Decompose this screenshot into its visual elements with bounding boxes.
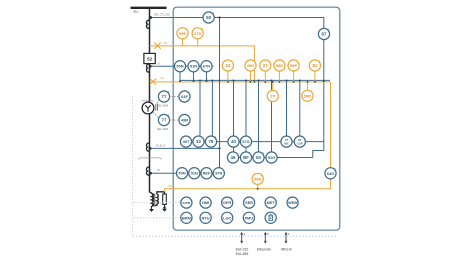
svg-text:HMI: HMI	[202, 200, 209, 205]
PT winding symbol	[146, 20, 149, 28]
svg-text:50: 50	[206, 15, 211, 20]
svg-text:59P: 59P	[290, 63, 297, 68]
function circle LGC	[222, 212, 233, 223]
wire: stubs row1-row2	[234, 147, 247, 152]
svg-text:3V: 3V	[161, 76, 164, 80]
function circle 51N	[188, 61, 199, 72]
function circle 40	[228, 136, 239, 147]
function circle 64G	[325, 168, 337, 179]
svg-text:32: 32	[196, 139, 201, 144]
wire: orange right drop to neutral line	[165, 82, 331, 189]
function circle 51G	[266, 152, 277, 163]
svg-text:EIA-485: EIA-485	[236, 252, 249, 256]
function circle 59D	[302, 90, 313, 101]
svg-text:27I: 27I	[270, 94, 275, 99]
wire: orange voltage bus	[150, 81, 331, 83]
grounding transformer	[150, 193, 153, 208]
zone separator tick	[139, 158, 162, 160]
svg-text:78: 78	[209, 139, 214, 144]
svg-text:27S: 27S	[194, 31, 201, 36]
svg-text:RTU: RTU	[202, 215, 210, 220]
dashed monitor boundary left	[132, 96, 134, 236]
svg-text:PMU: PMU	[245, 215, 254, 220]
wire: blue line from bus tap to 50 and 87 chain	[150, 18, 324, 158]
svg-text:IRIG-B: IRIG-B	[281, 248, 292, 252]
wire: row line 50N/51N/67N	[150, 65, 214, 67]
svg-text:REF: REF	[203, 171, 211, 176]
function circle 49T	[180, 136, 191, 147]
resistor grounding	[163, 194, 167, 204]
svg-text:1: 1	[168, 115, 170, 118]
wire: row2 chain	[227, 157, 312, 159]
wire: stem 64G top	[330, 82, 332, 168]
wire: orange neutral VN tap	[164, 189, 166, 193]
function circle 24	[222, 60, 233, 71]
function circle BF	[240, 152, 251, 163]
svg-text:VN: VN	[168, 184, 172, 188]
svg-text:SEL-2664: SEL-2664	[157, 104, 169, 107]
svg-text:3: 3	[288, 232, 290, 236]
wire: stems 50N 51N 67N to bus	[180, 72, 207, 81]
function circle 27S	[192, 28, 204, 39]
svg-text:52: 52	[147, 57, 152, 62]
fuse VT sync	[154, 43, 160, 49]
svg-text:IN: IN	[157, 168, 160, 172]
function circle 27I	[267, 90, 278, 101]
svg-text:67G: 67G	[242, 139, 249, 144]
svg-text:40: 40	[231, 139, 236, 144]
svg-text:77: 77	[162, 94, 167, 99]
svg-text:51N: 51N	[191, 171, 198, 176]
wire: vertical from 50-line to 87N	[219, 18, 221, 168]
svg-text:27: 27	[285, 138, 288, 142]
svg-text:87: 87	[322, 32, 327, 37]
function circle 67N	[201, 61, 212, 72]
wire: CT feed line under row1	[150, 147, 220, 149]
svg-text:51G: 51G	[268, 155, 275, 160]
node bus tap junction	[149, 16, 152, 19]
function circle 59G	[274, 60, 285, 71]
svg-text:59C: 59C	[284, 142, 289, 146]
function circle HMI	[200, 197, 211, 208]
wire: stem 59N	[257, 185, 259, 189]
svg-text:64G: 64G	[327, 171, 334, 176]
function circle 51N	[189, 168, 200, 179]
svg-text:59N: 59N	[254, 176, 261, 181]
function circle 87	[318, 28, 330, 39]
wire: row3 line	[150, 172, 225, 174]
generator G1	[142, 99, 154, 114]
dashed link to BRM	[134, 217, 181, 219]
function circle 59N	[252, 173, 264, 184]
svg-text:5: 5	[267, 232, 269, 236]
ground symbol resistor	[162, 208, 167, 212]
function circle 27	[260, 60, 271, 71]
function circle 64F	[179, 91, 190, 102]
function circle 46	[227, 152, 238, 163]
function circle 77	[158, 91, 170, 102]
svg-text:50N: 50N	[178, 171, 185, 176]
ground symbol primary	[149, 207, 154, 213]
svg-text:77: 77	[162, 118, 167, 123]
svg-text:59S, 27S, 25G: 59S, 27S, 25G	[154, 14, 170, 17]
field brush bracket	[156, 104, 158, 111]
wire: orange sync VT line	[150, 46, 255, 82]
svg-text:59S: 59S	[179, 31, 186, 36]
function circle 32	[193, 136, 204, 147]
svg-text:4: 4	[244, 232, 246, 236]
svg-text:50: 50	[256, 155, 261, 160]
dashed monitor boundary bottom	[133, 235, 336, 237]
relay box (SEL relay outline)	[173, 7, 340, 230]
svg-text:52PB: 52PB	[183, 201, 192, 205]
svg-text:87N: 87N	[215, 171, 222, 176]
function circle 49R	[179, 114, 190, 125]
function circle 50	[203, 12, 215, 23]
fuse VT terminal	[150, 78, 156, 84]
dashed link SEL-2600 to 77	[154, 113, 160, 119]
svg-text:60: 60	[298, 138, 301, 142]
function circle 50	[253, 152, 265, 163]
svg-text:LOP: LOP	[297, 142, 303, 146]
CT neutral-side	[146, 167, 149, 175]
svg-text:59D: 59D	[304, 93, 311, 98]
svg-text:50N: 50N	[176, 64, 183, 69]
wire: main feeder vertical upper	[149, 8, 151, 54]
comm port arrow	[240, 232, 245, 244]
svg-text:BRM: BRM	[182, 215, 191, 220]
CT terminal-side	[146, 143, 149, 151]
svg-text:LGC: LGC	[223, 215, 231, 220]
function circle 77	[158, 114, 170, 125]
function circle 50N	[174, 61, 185, 72]
dashed link SEL-2664 to 77	[157, 99, 160, 104]
svg-text:MET: MET	[267, 200, 276, 205]
function circle 25G	[245, 60, 256, 71]
svg-text:IA, IB, IC: IA, IB, IC	[156, 145, 166, 148]
dashed link 77 to 64F	[169, 96, 180, 98]
function circle WEB	[287, 197, 298, 208]
comm port arrow	[264, 232, 269, 244]
breaker 52	[144, 53, 155, 63]
wire: orange stems voltage row	[228, 71, 315, 82]
wire: row1 chain	[180, 141, 323, 143]
battery monitor circle	[265, 212, 276, 223]
svg-text:25G: 25G	[247, 63, 254, 68]
CT breaker-side	[146, 64, 149, 72]
function circle 52PB	[181, 197, 192, 208]
wire: vertical feeders	[200, 80, 300, 151]
wire: main feeder vertical lower	[149, 64, 151, 193]
svg-text:Ethernet¹: Ethernet¹	[257, 248, 272, 252]
function circle RTU	[200, 212, 211, 223]
svg-text:VS: VS	[164, 41, 168, 45]
svg-text:67N: 67N	[203, 64, 210, 69]
function circle DFR	[222, 197, 233, 208]
wire: stems 59S 27S	[183, 39, 198, 46]
svg-text:59G: 59G	[276, 63, 283, 68]
svg-text:SEL-2600: SEL-2600	[157, 128, 169, 131]
function circle SER	[244, 197, 255, 208]
function circle 78	[205, 136, 217, 147]
svg-text:3I: 3I	[158, 62, 160, 66]
function circle 67G	[240, 136, 251, 147]
dashed link 77 to 49R	[169, 119, 180, 121]
function circle 59P	[288, 60, 299, 71]
svg-text:WEB: WEB	[288, 200, 297, 205]
function circle PMU	[243, 212, 254, 223]
function circle 81	[309, 60, 321, 71]
svg-text:SER: SER	[245, 200, 253, 205]
bus bar	[131, 7, 167, 9]
junction dots	[179, 79, 325, 189]
svg-text:EIA-232: EIA-232	[236, 248, 249, 252]
svg-text:27: 27	[263, 63, 268, 68]
svg-text:Bus: Bus	[134, 10, 140, 14]
function circle	[294, 136, 305, 147]
wire: stems 27I 59D	[273, 82, 308, 91]
svg-text:46: 46	[231, 155, 236, 160]
function circle 50N	[176, 168, 187, 179]
svg-text:BF: BF	[243, 155, 249, 160]
svg-text:81: 81	[312, 63, 317, 68]
svg-text:24: 24	[225, 63, 230, 68]
function circle 87N	[213, 168, 224, 179]
dashed link to 52PB	[134, 202, 181, 204]
svg-text:64F: 64F	[181, 94, 188, 99]
svg-text:DFR: DFR	[223, 200, 231, 205]
svg-text:49T: 49T	[183, 139, 190, 144]
function circle 59S	[177, 28, 189, 39]
function circle MET	[265, 197, 276, 208]
function circle BRM	[181, 212, 192, 223]
svg-text:49R: 49R	[181, 118, 188, 123]
function circle	[281, 136, 292, 147]
svg-text:1: 1	[168, 91, 170, 94]
wire: blue current bus	[180, 79, 330, 81]
svg-text:51N: 51N	[190, 64, 197, 69]
function circle REF	[201, 168, 212, 179]
comm port arrow	[285, 232, 290, 244]
